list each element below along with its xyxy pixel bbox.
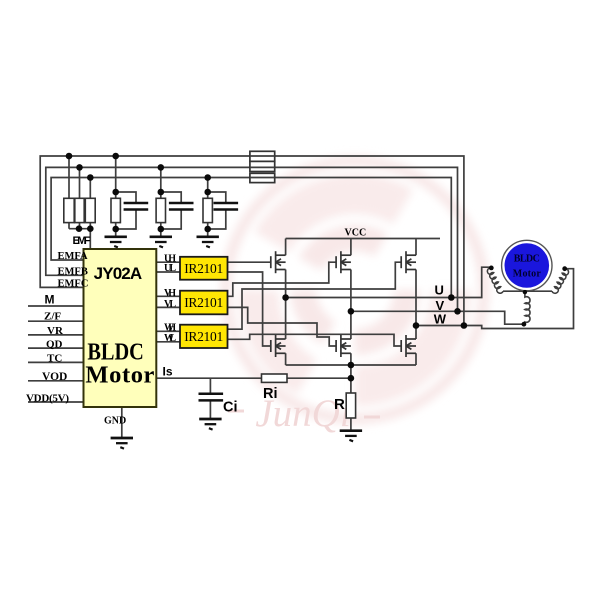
svg-text:Ri: Ri [263, 386, 278, 402]
svg-text:UL: UL [164, 263, 176, 274]
svg-text:Motor: Motor [513, 269, 542, 280]
svg-text:EMFC: EMFC [58, 278, 89, 289]
svg-text:U: U [435, 283, 444, 298]
svg-text:Motor: Motor [85, 362, 154, 389]
svg-text:Z/F: Z/F [44, 311, 61, 323]
svg-text:VH: VH [164, 288, 176, 299]
svg-text:TC: TC [47, 352, 62, 364]
svg-text:BLDC: BLDC [514, 254, 540, 265]
svg-text:GND: GND [104, 416, 126, 427]
svg-text:Is: Is [163, 365, 173, 379]
svg-text:QD: QD [46, 339, 63, 351]
svg-text:VR: VR [47, 325, 64, 337]
svg-text:EMFA: EMFA [58, 251, 89, 262]
svg-text:IR2101: IR2101 [184, 295, 223, 310]
svg-text:W: W [434, 311, 447, 326]
svg-text:VL: VL [164, 299, 176, 310]
svg-text:EMF: EMF [73, 235, 91, 247]
svg-text:Ci: Ci [223, 399, 238, 415]
svg-text:WH: WH [164, 322, 176, 333]
svg-text:VDD(5V): VDD(5V) [26, 392, 69, 404]
svg-text:EMFB: EMFB [58, 266, 88, 277]
svg-text:R: R [334, 396, 345, 413]
svg-text:M: M [45, 293, 55, 307]
svg-text:IR2101: IR2101 [184, 329, 223, 344]
svg-text:JY02A: JY02A [94, 264, 142, 283]
svg-text:VCC: VCC [345, 228, 367, 239]
svg-text:IR2101: IR2101 [184, 261, 223, 276]
svg-text:VOD: VOD [42, 371, 67, 383]
svg-text:WL: WL [164, 333, 176, 344]
